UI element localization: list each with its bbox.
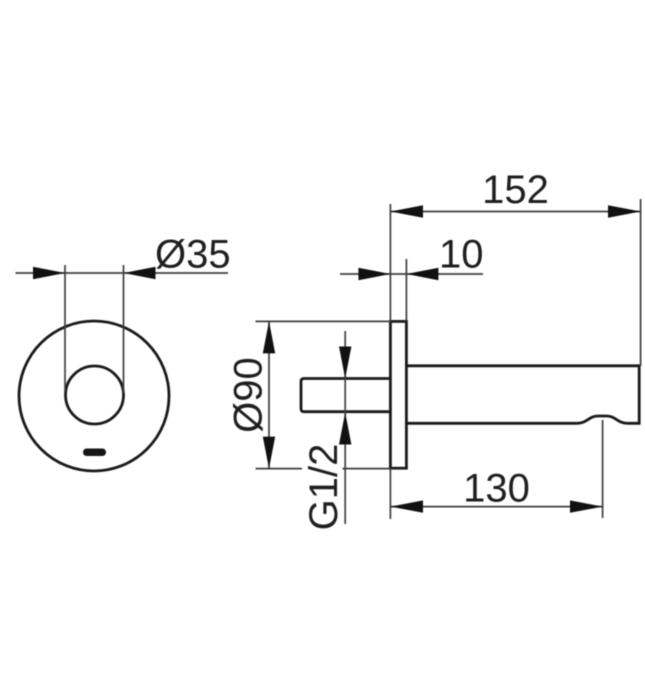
svg-text:10: 10 — [439, 233, 484, 277]
escutcheon outer circle (front view) — [19, 321, 169, 471]
logo mark on escutcheon — [83, 449, 106, 457]
spout top edge — [406, 364, 639, 367]
dimension 152 arrow right — [608, 205, 641, 217]
dimension 130 extension line right — [602, 420, 604, 518]
dimension Ø35 arrow left — [33, 267, 65, 279]
svg-text:G1/2: G1/2 — [302, 444, 346, 531]
dimension G1/2 arrow lower — [339, 413, 351, 445]
dimension 10 extension line right — [405, 259, 407, 321]
dimension 10 line — [340, 273, 483, 275]
dimension 152 arrow left — [390, 205, 423, 217]
svg-text:152: 152 — [482, 168, 549, 212]
dimension Ø35 extension line left — [64, 265, 66, 391]
svg-text:130: 130 — [463, 467, 530, 511]
dimension Ø35 arrow right — [124, 267, 156, 279]
dimension 130 line — [390, 506, 602, 508]
spout bottom edge with outlet bump — [406, 416, 639, 423]
dimension 152 line — [390, 211, 640, 213]
G1/2 connector stub — [301, 379, 390, 412]
dimension Ø90 line — [268, 321, 270, 468]
spout inner circle (front view) — [66, 366, 124, 424]
dimension Ø90 arrow bottom — [263, 437, 275, 469]
dimension G1/2 line — [344, 331, 346, 524]
dimension 152 extension line right — [640, 199, 642, 366]
dimension 130 arrow right — [570, 500, 603, 512]
dimension G1/2 arrow upper — [339, 347, 351, 379]
svg-text:Ø35: Ø35 — [155, 233, 231, 277]
dimension Ø90 extension line bottom — [256, 468, 392, 470]
dimension G1/2 label background — [302, 445, 343, 533]
svg-text:Ø90: Ø90 — [227, 357, 271, 433]
dimension 152 extension line left — [389, 204, 391, 322]
dimension 130 arrow left — [390, 500, 423, 512]
dimension Ø35 extension line right — [123, 265, 125, 393]
dimension 10 arrow right — [406, 268, 438, 280]
dimension 130 extension line left — [389, 468, 391, 519]
dimension Ø90 arrow top — [263, 321, 275, 353]
dimension Ø90 extension line top — [256, 320, 392, 322]
dimension Ø35 line — [16, 272, 229, 274]
spout end edge — [638, 364, 641, 424]
dimension 10 arrow left — [358, 268, 390, 280]
wall plate side view — [390, 321, 406, 468]
